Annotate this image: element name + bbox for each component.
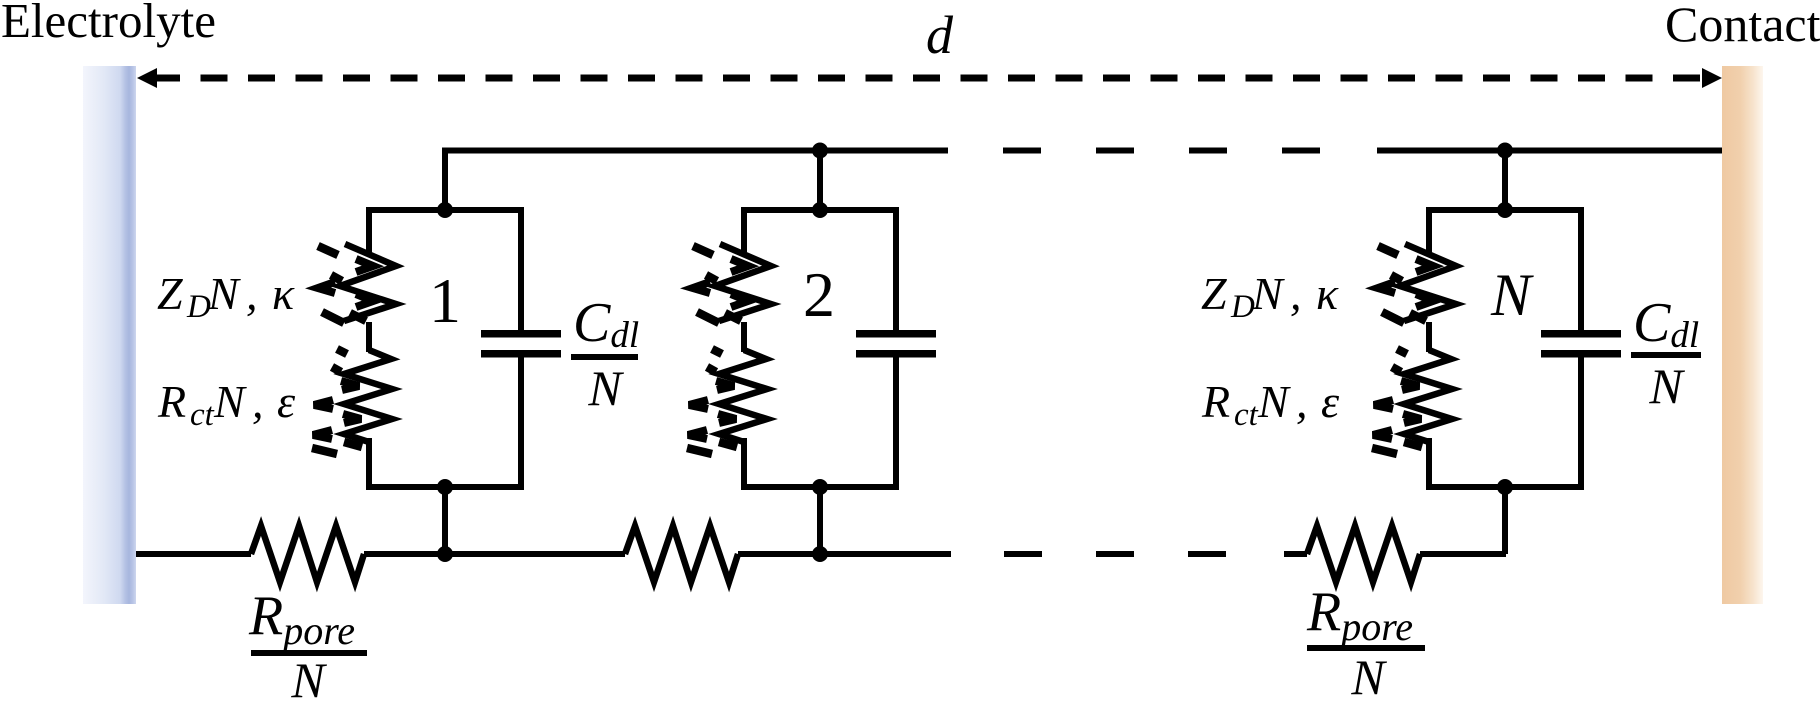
- svg-text:ct: ct: [190, 397, 215, 433]
- svg-text:,: ,: [246, 268, 258, 319]
- svg-text:,: ,: [252, 376, 264, 427]
- svg-text:N: N: [290, 652, 327, 702]
- svg-text:2: 2: [803, 259, 835, 330]
- svg-text:N: N: [1490, 262, 1534, 328]
- svg-text:N: N: [587, 360, 624, 416]
- svg-text:Z: Z: [157, 268, 183, 319]
- svg-text:1: 1: [429, 265, 461, 336]
- svg-text:Electrolyte: Electrolyte: [1, 0, 216, 48]
- svg-text:R: R: [157, 376, 186, 427]
- svg-text:N: N: [1350, 649, 1387, 702]
- svg-text:d: d: [926, 5, 954, 65]
- svg-text:ε: ε: [277, 376, 296, 427]
- svg-text:N: N: [213, 376, 247, 427]
- svg-text:Contact: Contact: [1665, 0, 1820, 52]
- svg-text:N: N: [1648, 358, 1685, 414]
- svg-text:N: N: [207, 268, 241, 319]
- svg-text:κ: κ: [272, 268, 295, 319]
